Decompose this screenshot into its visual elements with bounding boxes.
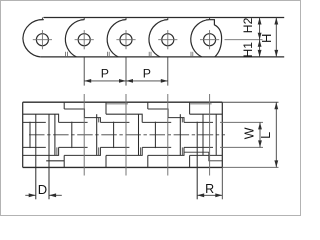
plan link 3 lower wall edge (106, 147, 142, 155)
bushing 2 right edge (96, 114, 98, 155)
D dimension line left tail (25, 194, 35, 196)
link 5 top notch (206, 18, 210, 20)
plan link 3 lower wall second stub (140, 147, 142, 155)
bushing 2 left edge (71, 122, 73, 148)
plan seam top link 2 (63, 102, 65, 109)
svg-text:P: P (143, 66, 151, 80)
plan link 2 upper narrow stub (98, 118, 100, 123)
chain top band top edge (43, 17, 284, 19)
hole 2 (78, 34, 90, 46)
plan link 4 lower wall second stub (181, 147, 183, 155)
bushing 3 left edge (113, 122, 115, 148)
hole 5 crosshair (200, 39, 219, 41)
pin 5 centre line (209, 94, 211, 176)
link 2 butt seam (65, 52, 67, 57)
bushing 1 right edge (54, 114, 56, 155)
link 3 butt seam (106, 52, 108, 57)
link 5 end arc (191, 20, 209, 57)
W arrows (258, 122, 262, 129)
plan seam bottom link 2 (63, 155, 65, 167)
hole 5 (204, 34, 216, 46)
plan bottom outer edge (23, 166, 223, 168)
W bottom extension (220, 146, 263, 148)
plan link 3 upper wall edge (106, 114, 142, 122)
hole 1 (36, 34, 48, 46)
plan link 4 upper narrow stub (181, 118, 183, 123)
plan right end edge (221, 102, 223, 167)
pin 1 left edge (D reference) (35, 114, 37, 199)
link 1 lower end face (46, 160, 64, 162)
plan link 4 upper narrow face (148, 109, 184, 122)
plan link 1 lower wall edge (23, 147, 59, 155)
link 1 top notch (39, 18, 43, 20)
P extension line hole3 (125, 57, 127, 85)
D arrows (29, 193, 36, 197)
P arrows (84, 79, 91, 83)
svg-text:H1: H1 (241, 42, 255, 58)
plan link 1 upper wall edge (23, 114, 59, 122)
plan left end edge (22, 102, 24, 167)
L arrows (274, 102, 278, 109)
link 4 butt seam (148, 52, 150, 57)
plan link 4 upper inner width edge (142, 121, 171, 123)
hole 2 crosshair (75, 39, 94, 41)
plan link 4 lower wall edge (148, 147, 184, 155)
link 3 end arc (107, 20, 125, 57)
plan link 3 top inset edge (107, 103, 128, 105)
plan link 1 upper inner width edge (23, 121, 46, 123)
plan seam top link 3 (105, 102, 107, 114)
bushing 4 left edge (154, 122, 156, 148)
plan link 4 lower inner width edge (142, 146, 171, 148)
plan link 1 lower inner width edge (23, 146, 46, 148)
chain top band bottom edge (40, 56, 284, 58)
plan link 5 top inset edge (190, 103, 211, 105)
link 2 top notch (81, 18, 85, 20)
H dimension line (275, 18, 277, 57)
bushing 3 right edge (138, 114, 140, 155)
W dimension line (259, 122, 261, 147)
plan link 5 upper inner width edge (184, 121, 213, 123)
plan link 2 upper narrow face (64, 109, 100, 122)
R arrows (197, 193, 204, 197)
link 1 left end arc (23, 20, 44, 57)
P extension line hole4 (167, 57, 169, 85)
plan link 3 lower inner width edge (100, 146, 129, 148)
bushing 5 left edge / R reference (196, 122, 198, 200)
H1 H2 dimension line (259, 18, 261, 57)
plan right end extension down for R (221, 167, 223, 199)
pin 3 centre line (125, 94, 127, 176)
P extension line hole2 (83, 57, 85, 85)
plan link 3 upper inner width edge (100, 121, 129, 123)
pin 2 centre line (83, 94, 85, 176)
plan seam bottom link 3 (105, 155, 107, 167)
plan link 2 lower wall second stub (98, 147, 100, 155)
link 5 right closure (210, 20, 222, 57)
hole 3 crosshair (116, 39, 135, 41)
hole 4 crosshair (158, 39, 177, 41)
link 5 butt seam (190, 52, 192, 57)
hole 1 crosshair (33, 39, 52, 41)
R dimension line (197, 194, 222, 196)
hole 4 (162, 34, 174, 46)
svg-text:W: W (242, 127, 256, 139)
plan seam top link 4 (147, 102, 149, 109)
link 2 end arc (65, 20, 83, 57)
link 3 top notch (122, 18, 126, 20)
pin 1 right edge (D reference) (48, 114, 50, 199)
svg-text:H: H (259, 34, 274, 43)
L dimension line (275, 102, 277, 167)
plan chain centre line (29, 134, 225, 136)
plan seam bottom link 5 (189, 155, 191, 167)
link 4 top notch (164, 18, 168, 20)
H arrows (274, 18, 278, 25)
plan link 2 upper inner width edge (59, 121, 88, 123)
P dimension line (84, 80, 168, 82)
plan link 5 lower inner width edge (184, 146, 213, 148)
pin 5 right edge (215, 114, 217, 155)
W top extension (220, 121, 263, 123)
bushing 4 right edge (179, 114, 181, 155)
L bottom extension (222, 166, 278, 168)
link 5 lower tail edge (184, 152, 222, 161)
svg-text:D: D (38, 182, 47, 197)
D dimension line right tail (49, 194, 62, 196)
H1 H2 arrows (258, 18, 262, 25)
L top extension (222, 101, 278, 103)
svg-text:H2: H2 (241, 17, 255, 33)
plan link 2 lower wall edge (64, 147, 100, 155)
plan link 2 lower inner width edge (59, 146, 88, 148)
hole 3 (120, 34, 132, 46)
plan link 5 lower wall edge (190, 154, 223, 156)
plan link 1 lower wall second stub (56, 147, 58, 155)
plan seam top link 5 (189, 102, 191, 114)
plan seam bottom link 4 (147, 155, 149, 167)
link 4 end arc (149, 20, 167, 57)
svg-text:R: R (205, 182, 214, 196)
bushing 1 left edge (29, 122, 31, 148)
svg-text:P: P (101, 66, 109, 80)
svg-text:L: L (259, 132, 273, 139)
plan top outer edge (23, 101, 223, 103)
mid extension line to H dims (225, 39, 263, 41)
plan link 5 upper wall edge (190, 113, 223, 115)
pin 5 left edge (202, 114, 204, 155)
pin 4 centre line (167, 94, 169, 176)
